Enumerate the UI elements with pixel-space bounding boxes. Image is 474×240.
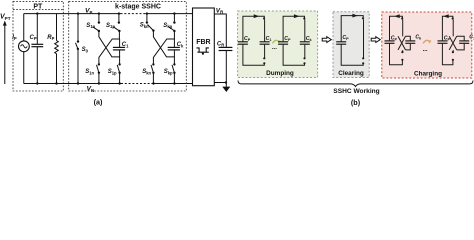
svg-text:S1p: S1p xyxy=(106,23,115,29)
label Dumping xyxy=(266,70,294,77)
arrow ellipsis charging xyxy=(423,40,432,53)
node VN label xyxy=(87,86,95,93)
svg-text:...: ... xyxy=(423,47,428,53)
svg-text:VN: VN xyxy=(87,86,95,93)
svg-text:VP: VP xyxy=(85,8,93,15)
label (b) xyxy=(351,98,361,107)
svg-text:PT: PT xyxy=(33,3,43,10)
label Clearing xyxy=(338,70,364,77)
svg-text:Skn: Skn xyxy=(142,69,151,75)
wire stage1 cross right xyxy=(99,31,120,64)
arrow block 2 xyxy=(371,37,380,43)
wire FBR to CR bottom xyxy=(214,81,227,83)
wire bottom rail VN xyxy=(24,83,193,85)
wire stage1 cross left xyxy=(99,31,120,64)
svg-text:RP: RP xyxy=(47,35,54,41)
capacitor CR xyxy=(217,41,233,82)
svg-text:S1p: S1p xyxy=(108,69,117,75)
switch Skn top xyxy=(140,14,155,32)
switch Skp bottom xyxy=(164,63,176,83)
capacitor Ck xyxy=(168,39,184,57)
svg-text:Ck: Ck xyxy=(177,42,184,48)
svg-text:S1n: S1n xyxy=(86,23,95,29)
wire stagek cross left xyxy=(153,31,174,64)
switch cross charging1 xyxy=(398,36,410,50)
label (a) xyxy=(94,98,103,107)
label SSHC Working xyxy=(333,88,379,95)
svg-text:k-stage SSHC: k-stage SSHC xyxy=(115,3,161,10)
current source IP xyxy=(12,14,29,84)
svg-text:Clearing: Clearing xyxy=(338,70,364,77)
node VPT label xyxy=(0,14,11,22)
switch cross charging2 xyxy=(449,36,464,50)
resistor RP xyxy=(47,14,58,84)
PT box xyxy=(13,1,63,91)
capacitor C1 charging2 xyxy=(459,35,474,44)
capacitor C1 dumping1 xyxy=(260,36,272,44)
capacitor CP charging2 xyxy=(438,36,451,44)
label Charging xyxy=(414,71,442,78)
svg-text:Skp: Skp xyxy=(163,23,172,29)
switch S1n top xyxy=(86,14,100,33)
capacitor CP dumping2 xyxy=(278,36,291,44)
brace SSHC working xyxy=(238,81,473,87)
Dumping box xyxy=(238,11,318,78)
node junction dots top rail xyxy=(36,12,176,14)
wire top rail VP xyxy=(24,13,193,15)
arrow block 1 xyxy=(322,37,331,43)
wire stagek cross right xyxy=(153,31,174,64)
capacitor CP clearing xyxy=(336,35,349,44)
node VR label xyxy=(216,7,224,14)
svg-text:Skp: Skp xyxy=(164,69,173,75)
svg-text:...: ... xyxy=(272,45,277,51)
wire dumping loop1 xyxy=(243,14,266,65)
k-stage SSHC box xyxy=(69,1,187,91)
wire clearing loop xyxy=(341,14,364,66)
svg-text:(b): (b) xyxy=(351,98,361,107)
wire VPT arrow xyxy=(3,21,7,85)
FBR U1 xyxy=(193,8,215,86)
svg-text:IP: IP xyxy=(12,35,17,41)
capacitor CP charging1 xyxy=(385,36,398,44)
switch S1p top xyxy=(106,14,121,33)
wire VR xyxy=(214,14,226,47)
switch S0 xyxy=(76,14,89,84)
capacitor C1 xyxy=(113,39,129,57)
Clearing box xyxy=(333,12,369,78)
wire charging loop1 xyxy=(390,14,404,65)
switch S1n bottom xyxy=(85,63,100,83)
node junction dots bottom rail xyxy=(36,82,176,84)
svg-text:Skn: Skn xyxy=(140,23,149,29)
svg-text:S0: S0 xyxy=(82,47,89,53)
capacitor CP dumping1 xyxy=(238,36,251,44)
svg-text:FBR: FBR xyxy=(196,39,210,46)
svg-text:(a): (a) xyxy=(94,98,103,107)
arrow ellipsis dumping xyxy=(272,40,281,51)
Charging box xyxy=(382,12,472,78)
wire dumping loop2 xyxy=(283,14,306,65)
capacitor Ck dumping2 xyxy=(300,36,313,44)
switch Skn bottom xyxy=(142,63,154,83)
node VP label xyxy=(85,8,93,15)
capacitor Ck charging1 xyxy=(405,35,422,44)
svg-text:Dumping: Dumping xyxy=(266,70,294,77)
switch S1p bottom xyxy=(108,63,121,83)
svg-text:CR: CR xyxy=(217,41,224,47)
svg-text:SSHC Working: SSHC Working xyxy=(333,88,379,95)
svg-text:C1: C1 xyxy=(469,35,474,41)
wire charging loop2 xyxy=(442,14,454,65)
svg-text:C1: C1 xyxy=(122,42,129,48)
svg-text:S1n: S1n xyxy=(85,69,94,75)
svg-text:VPT: VPT xyxy=(0,14,11,22)
svg-text:Charging: Charging xyxy=(414,71,442,78)
ground xyxy=(222,83,230,93)
switch Skp top xyxy=(163,14,175,33)
capacitor CP xyxy=(30,14,44,84)
svg-text:CP: CP xyxy=(30,35,37,41)
